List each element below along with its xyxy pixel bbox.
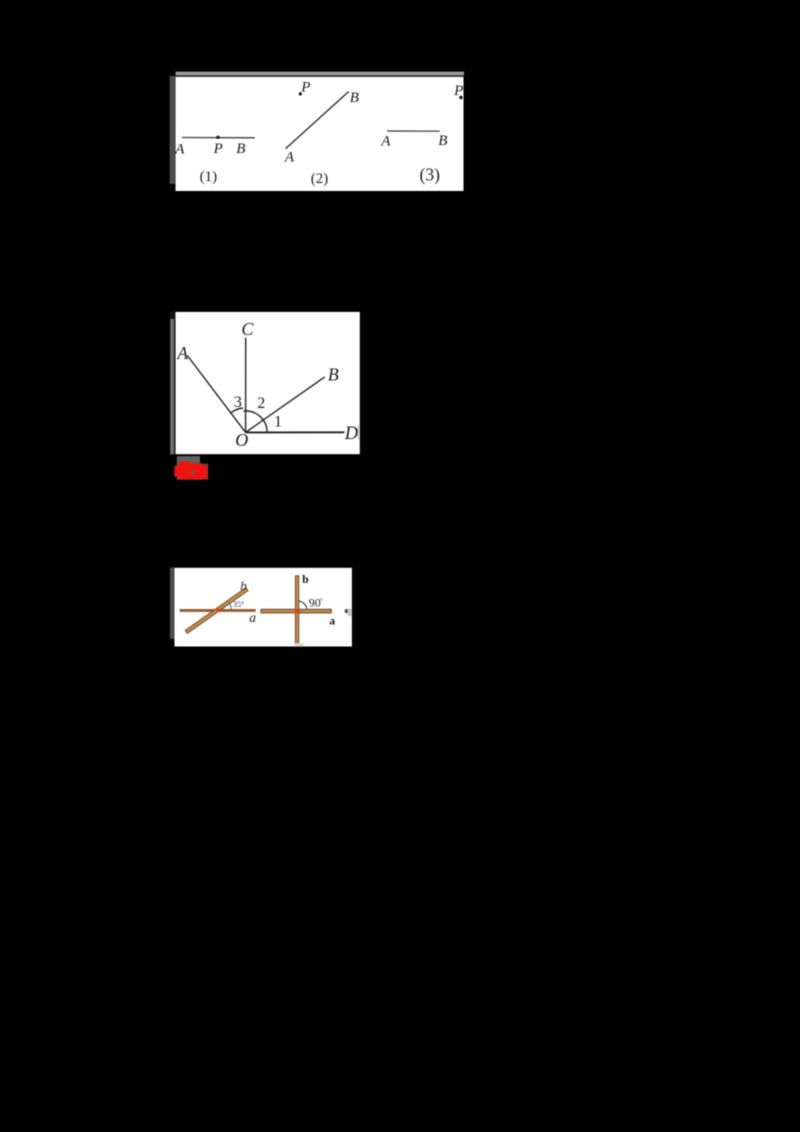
left shadow strip of top box xyxy=(170,76,176,184)
left diagram: line b (oblique stick) xyxy=(185,588,248,634)
dark corner of left strip xyxy=(170,312,176,320)
svg-text:B: B xyxy=(438,133,447,149)
angle arc from OC to OA xyxy=(230,408,243,414)
svg-text:35°: 35° xyxy=(233,600,244,609)
figure (2): segment AB xyxy=(286,92,349,149)
red scribble stroke 5 xyxy=(202,466,208,479)
right diagram: degree mark xyxy=(320,598,322,600)
ray OB xyxy=(246,377,325,433)
svg-text:P: P xyxy=(300,80,310,96)
red scribble stroke 4 xyxy=(190,463,202,479)
red scribble gap hole xyxy=(192,471,195,474)
svg-text:90: 90 xyxy=(309,595,321,609)
svg-text:1: 1 xyxy=(274,413,282,430)
svg-text:A: A xyxy=(176,343,188,363)
white panel of top box xyxy=(176,77,464,191)
figure (1): point P dot xyxy=(216,136,219,139)
figure (3): point P dot xyxy=(459,96,462,99)
angle arc from OD to OC xyxy=(243,411,267,433)
red scribble stroke 1 xyxy=(174,466,179,477)
figure (3): segment AB xyxy=(387,130,440,132)
left shadow strip of bottom box xyxy=(170,567,175,639)
right diagram: gray patch at bottom of b xyxy=(294,643,304,646)
svg-text:A: A xyxy=(174,142,185,158)
red scribble stroke 3 xyxy=(189,464,195,478)
faint edge line right of D xyxy=(358,425,359,440)
svg-text:a: a xyxy=(329,616,335,628)
svg-text:(3): (3) xyxy=(420,164,441,184)
left diagram: 35 degree arc xyxy=(229,603,232,610)
svg-text:B: B xyxy=(328,365,339,385)
right diagram: red intersection dot xyxy=(295,609,299,613)
left diagram: red intersection dot xyxy=(217,609,221,612)
svg-text:A: A xyxy=(380,134,391,150)
svg-text:b: b xyxy=(302,574,308,586)
right diagram: 90 degree arc xyxy=(299,601,307,609)
svg-text:D: D xyxy=(344,424,359,444)
white panel of middle box xyxy=(176,312,360,454)
right diagram: gray fleck at right edge xyxy=(348,609,352,616)
svg-text:2: 2 xyxy=(257,395,265,412)
svg-text:A: A xyxy=(284,150,295,166)
ray OC xyxy=(245,338,247,433)
svg-text:3: 3 xyxy=(234,394,242,411)
svg-text:b: b xyxy=(240,578,247,593)
svg-text:O: O xyxy=(235,430,248,450)
right diagram: line a (horizontal stick) xyxy=(261,609,331,613)
svg-text:B: B xyxy=(350,90,359,106)
svg-text:(1): (1) xyxy=(200,169,218,185)
ray OA xyxy=(187,356,245,433)
left shadow strip of middle box xyxy=(170,319,174,454)
red scribble stroke 2 xyxy=(179,461,191,479)
svg-text:P: P xyxy=(213,141,223,157)
left diagram: line a darker top edge xyxy=(180,608,256,611)
black rule under top bar xyxy=(176,75,465,76)
svg-text:B: B xyxy=(236,141,245,157)
figure (1): line through A P B xyxy=(182,137,255,139)
ray OD xyxy=(246,431,345,433)
gray top bar of top box xyxy=(176,72,465,76)
svg-text:a: a xyxy=(249,610,256,625)
figure (2): point P dot xyxy=(299,92,302,95)
darker gray right part xyxy=(200,464,208,480)
svg-text:(2): (2) xyxy=(311,171,329,187)
left diagram: line a (horizontal stick) xyxy=(180,609,256,612)
white panel of bottom box xyxy=(175,568,352,647)
gray backing rectangle xyxy=(177,456,200,480)
right diagram: dark fleck at right edge xyxy=(345,609,348,613)
right diagram: line b (vertical stick) xyxy=(295,576,298,645)
svg-text:C: C xyxy=(241,319,254,339)
